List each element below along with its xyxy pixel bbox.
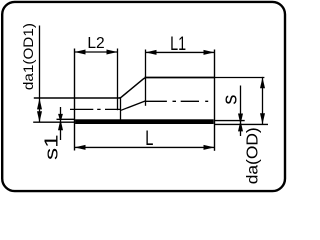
sloped centerline through taper (121, 101, 146, 110)
L dimension line (75, 146, 215, 148)
bottom wall upper edge extension (right) (215, 120, 245, 122)
svg-text:L: L (145, 125, 153, 150)
body: taper start edge (120, 97, 122, 119)
body: top edge of small tube (34, 97, 120, 99)
svg-text:s1: s1 (41, 135, 61, 161)
bottom wall lower edge extension (right) (215, 123, 269, 125)
svg-text:L2: L2 (87, 35, 104, 52)
L1 right arrow (204, 50, 215, 55)
border frame (2, 2, 285, 191)
L1 dimension line (146, 51, 215, 53)
L left arrow (75, 145, 86, 150)
s1 dimension line (vertical stem) (60, 107, 62, 140)
svg-text:s: s (219, 95, 241, 105)
bottom wall lower edge extension (left) (33, 121, 75, 123)
L2 right arrow (107, 50, 118, 55)
s1 upper arrow (points down, outside) (58, 119, 63, 130)
body: left end edge of small tube + extension lines (L2/L dims) (74, 49, 76, 151)
centerline of small bore (dash-dot) (70, 108, 121, 110)
L2 dimension line (75, 51, 118, 53)
s1 lower arrow (points up, outside) (58, 114, 63, 123)
svg-text:da(OD): da(OD) (244, 127, 261, 184)
svg-text:L1: L1 (170, 34, 186, 55)
bottom wall upper edge extension (left) (57, 118, 76, 120)
s dimension line (vertical stem) (240, 86, 242, 137)
L2 right extension line (117, 49, 119, 111)
centerline of large bore (dash-dot) (146, 100, 208, 102)
svg-text:da1(OD1): da1(OD1) (20, 23, 36, 90)
da dimension line (262, 77, 264, 124)
da1 dimension line (39, 26, 41, 123)
extension of top edge to the right (for da(OD)) (215, 77, 265, 79)
s lower arrow (points up, outside) (238, 114, 243, 125)
L1 left arrow (146, 50, 157, 55)
body: solid bottom wall (thick band) (75, 119, 214, 124)
L right arrow (204, 145, 215, 150)
L1 left extension line (taper end edge) (145, 50, 147, 106)
body: right end edge of large tube + extension lines (L1/L dims) (214, 50, 216, 151)
body: outer taper cone line (119, 78, 146, 98)
body: top edge of large tube (145, 77, 215, 79)
da bottom arrow (points down) (260, 113, 265, 124)
da1 bottom arrow (points down to bottom) (37, 111, 42, 122)
L2 left arrow (75, 50, 86, 55)
s upper arrow (points down, outside) (238, 120, 243, 131)
da top arrow (points up) (260, 77, 265, 88)
da1 top arrow (points up to outer top) (37, 98, 42, 109)
